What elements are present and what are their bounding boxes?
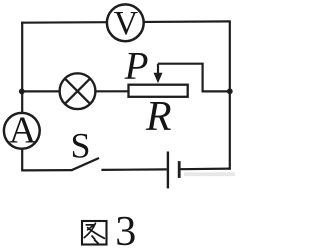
resistor R body: [129, 85, 188, 97]
svg-text:A: A: [9, 109, 37, 151]
dot 1: [92, 236, 95, 239]
svg-text:R: R: [145, 94, 172, 140]
lamp circle: [60, 73, 96, 109]
na stroke: [88, 228, 105, 239]
dot 2: [95, 240, 98, 243]
box of tu: [82, 221, 107, 245]
battery long plate (+): [167, 152, 169, 189]
long pie stroke: [84, 223, 95, 237]
caption hanzi tu (figure) drawn as strokes: [82, 221, 107, 245]
wire top horizontal: [21, 21, 231, 22]
wire left vertical: [21, 22, 23, 171]
wire bottom left (corner to switch): [21, 169, 72, 171]
svg-text:3: 3: [115, 209, 136, 251]
svg-text:P: P: [124, 45, 149, 88]
svg-text:S: S: [70, 125, 90, 165]
wire rheostat wiper loop: [158, 64, 230, 92]
lamp cross: [65, 79, 90, 104]
junction node right: [227, 88, 233, 94]
voltmeter V circle: [107, 4, 144, 41]
wire lamp branch horizontal: [22, 90, 128, 92]
wire right vertical: [229, 21, 231, 169]
switch S blade: [72, 158, 99, 170]
battery short plate (-): [178, 161, 181, 178]
wiper arrow: [154, 64, 163, 84]
ammeter A circle: [4, 113, 40, 149]
junction node left: [19, 89, 25, 95]
wire switch to battery: [101, 168, 166, 171]
scan smudge artifact: [184, 172, 235, 176]
short pie stroke: [88, 226, 93, 230]
heng stroke: [86, 224, 93, 226]
wire battery to bottom-right corner: [180, 168, 231, 171]
svg-text:V: V: [114, 5, 139, 42]
